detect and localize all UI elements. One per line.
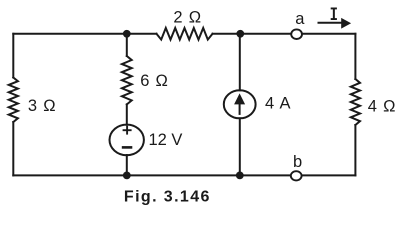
node dot top-left junction [123,30,131,38]
svg-text:6 Ω: 6 Ω [140,72,169,90]
wire top mid horizontal to terminal a [213,33,291,35]
resistor R 2ohm horizontal zigzag [157,28,213,40]
node dot bottom-left junction [123,172,131,180]
current I arrow at top right [318,18,352,29]
svg-text:4 A: 4 A [265,94,291,112]
arrow inside 4A current source [234,93,245,115]
svg-text:3 Ω: 3 Ω [28,97,57,115]
wire 4A source to bottom [239,118,241,175]
wire left vertical upper [12,34,14,78]
plus sign of 12V source [123,126,132,135]
wire right vertical upper [354,34,356,79]
wire branch 6ohm top [126,34,128,56]
resistor R 6ohm vertical zigzag [122,56,132,104]
wire bottom from terminal b to left [13,174,290,176]
wire terminal a to top-right corner [303,33,355,35]
wire bottom right to terminal b [303,174,356,176]
terminal a open circle [291,29,302,39]
svg-text:12 V: 12 V [149,131,183,149]
svg-text:Fig. 3.146: Fig. 3.146 [124,189,211,206]
current source I1 4A circle [224,90,256,118]
wire top-left horizontal [13,33,156,35]
wire 12V source to bottom [126,155,128,175]
svg-text:4 Ω: 4 Ω [368,98,397,116]
minus sign of 12V source [122,146,133,149]
svg-text:a: a [295,10,305,28]
resistor R 4ohm vertical zigzag [351,79,360,125]
wire 6ohm to 12V source [126,104,128,124]
wire left vertical lower [12,122,14,175]
label I (serif capital drawn as shapes) [331,8,337,21]
voltage source V1 12V circle [110,125,144,156]
node dot bottom-right junction [236,172,244,180]
terminal b open circle [291,171,302,180]
wire right vertical lower [354,125,356,175]
node dot top-right junction [236,30,244,38]
svg-text:2 Ω: 2 Ω [173,9,202,27]
wire branch 4A top [239,34,241,91]
resistor R 3ohm vertical zigzag [9,78,18,123]
svg-text:b: b [293,153,302,171]
